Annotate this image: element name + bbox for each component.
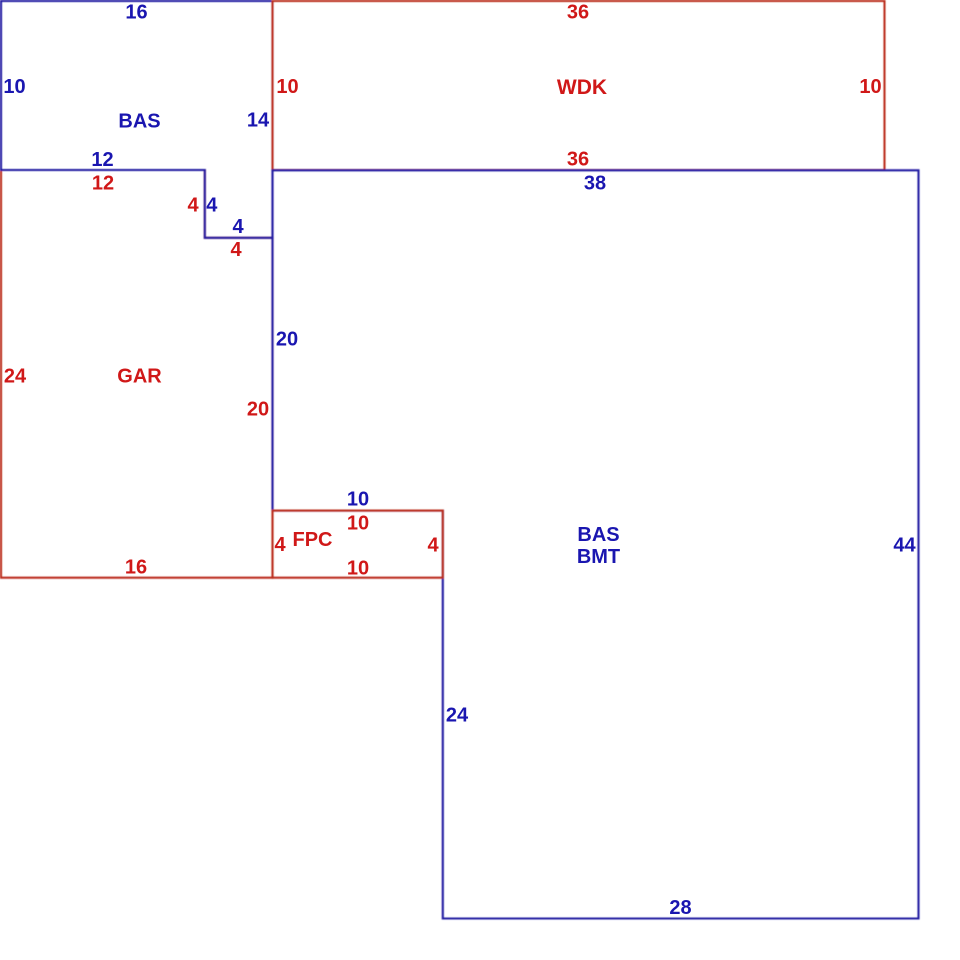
svg-text:4: 4 xyxy=(187,195,199,217)
svg-text:16: 16 xyxy=(125,2,147,24)
svg-text:28: 28 xyxy=(669,897,691,919)
area FPC outline xyxy=(273,511,443,578)
svg-text:FPC: FPC xyxy=(293,529,333,551)
svg-text:10: 10 xyxy=(347,489,369,511)
svg-text:20: 20 xyxy=(276,329,298,351)
svg-text:20: 20 xyxy=(247,399,269,421)
svg-text:24: 24 xyxy=(446,705,469,727)
svg-text:44: 44 xyxy=(893,535,916,557)
svg-text:36: 36 xyxy=(567,2,589,24)
svg-text:14: 14 xyxy=(247,110,270,132)
svg-text:10: 10 xyxy=(347,513,369,535)
svg-text:4: 4 xyxy=(274,534,286,556)
svg-text:GAR: GAR xyxy=(117,366,162,388)
svg-text:16: 16 xyxy=(125,557,147,579)
svg-text:10: 10 xyxy=(347,558,369,580)
area WDK outline xyxy=(273,1,885,170)
area BAS outline xyxy=(1,1,273,238)
svg-text:4: 4 xyxy=(230,239,242,261)
svg-text:4: 4 xyxy=(427,535,439,557)
svg-text:38: 38 xyxy=(584,172,606,194)
svg-text:4: 4 xyxy=(232,216,244,238)
svg-text:10: 10 xyxy=(3,76,25,98)
svg-text:12: 12 xyxy=(92,172,114,194)
svg-text:BAS: BAS xyxy=(118,111,160,133)
area GAR outline xyxy=(1,170,273,578)
svg-text:24: 24 xyxy=(4,366,27,388)
svg-text:10: 10 xyxy=(276,76,298,98)
svg-text:36: 36 xyxy=(567,149,589,171)
svg-text:BAS: BAS xyxy=(577,524,619,546)
svg-text:BMT: BMT xyxy=(577,546,620,568)
svg-text:WDK: WDK xyxy=(557,76,607,99)
svg-text:4: 4 xyxy=(206,195,218,217)
svg-text:10: 10 xyxy=(859,76,881,98)
svg-text:12: 12 xyxy=(91,149,113,171)
area BAS BMT outline xyxy=(273,170,919,918)
